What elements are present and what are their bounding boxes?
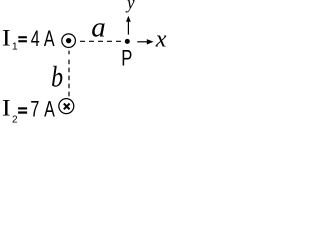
svg-text:A: A [44,97,55,122]
svg-text:7: 7 [30,97,39,122]
svg-text:a: a [91,12,106,44]
svg-text:P: P [121,46,132,71]
svg-text:I: I [2,96,11,121]
svg-text:4: 4 [31,27,40,52]
svg-text:y: y [125,0,135,13]
svg-text:A: A [44,27,55,52]
svg-text:2: 2 [12,114,18,125]
svg-text:1: 1 [12,41,18,53]
svg-text:I: I [2,26,11,51]
svg-text:b: b [51,60,63,93]
svg-text:x: x [155,27,167,53]
